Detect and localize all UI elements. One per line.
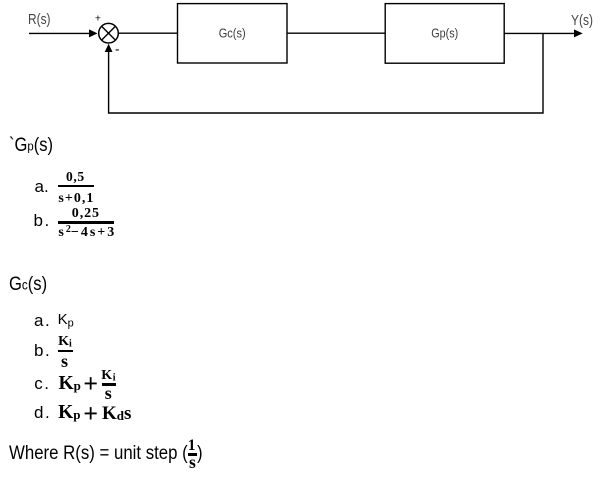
item c. Kp + Ki/s (34, 375, 50, 392)
svg-text:Gc(s): Gc(s) (219, 27, 246, 41)
item a. of Gp (35, 178, 49, 195)
arrowhead into summing junction (89, 29, 98, 37)
header `Gp(s) (9, 136, 53, 155)
svg-text:Y(s): Y(s) (571, 12, 593, 29)
fraction 0,25 / s2-4s+3 (72, 207, 100, 221)
svg-text:+: + (95, 13, 101, 25)
wire feedback (109, 33, 543, 113)
summing junction (99, 23, 119, 43)
fraction 0,5 / s+0,1 (66, 170, 85, 184)
wire output (504, 32, 575, 34)
arrowhead feedback into junction (105, 44, 113, 52)
item b. Ki/s (34, 342, 51, 359)
svg-text:Gp(s): Gp(s) (431, 27, 458, 41)
item d. Kp + Kd s (34, 404, 51, 421)
where line (9, 444, 188, 463)
arrowhead output (574, 29, 583, 37)
wire junction to Gc (118, 32, 177, 34)
item b. of Gp (34, 212, 51, 229)
wire input (29, 32, 90, 34)
svg-text:-: - (115, 41, 120, 56)
block diagram (0, 0, 602, 130)
svg-text:R(s): R(s) (28, 11, 51, 28)
header Gc(s) (9, 275, 47, 294)
item a. Kp (34, 312, 51, 329)
block Gp(s) (385, 4, 504, 64)
wire Gc to Gp (287, 32, 385, 34)
block Gc(s) (178, 4, 288, 63)
